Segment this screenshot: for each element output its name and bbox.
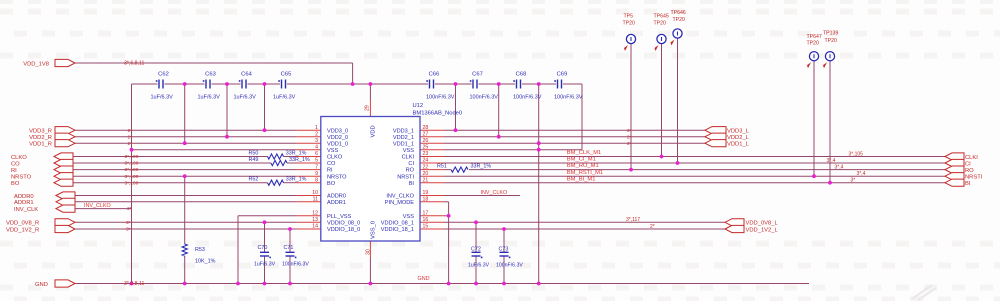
svg-text:33R_1%: 33R_1% <box>471 163 492 169</box>
svg-text:VSS: VSS <box>327 148 338 154</box>
svg-text:TP5: TP5 <box>624 14 634 20</box>
svg-text:BI: BI <box>965 181 971 187</box>
svg-text:3*,117: 3*,117 <box>626 217 640 223</box>
svg-text:3*,6,8,11: 3*,6,8,11 <box>124 281 144 287</box>
svg-text:U12: U12 <box>413 103 424 109</box>
svg-text:1uF/6.3V: 1uF/6.3V <box>198 95 221 101</box>
svg-text:1: 1 <box>315 125 318 131</box>
svg-text:3*: 3* <box>126 220 131 226</box>
svg-text:29: 29 <box>364 105 370 111</box>
svg-text:VDD_1V2_R: VDD_1V2_R <box>6 227 39 233</box>
svg-text:2*: 2* <box>627 128 632 134</box>
svg-text:C64: C64 <box>241 72 252 78</box>
svg-text:C69: C69 <box>557 72 568 78</box>
svg-text:C72: C72 <box>471 247 481 253</box>
svg-text:BM1366AB_Node0: BM1366AB_Node0 <box>413 111 463 117</box>
svg-text:VDDIO_08_1: VDDIO_08_1 <box>381 220 414 226</box>
svg-text:INV_CLKO: INV_CLKO <box>386 194 414 200</box>
svg-text:10: 10 <box>312 190 318 196</box>
svg-text:C68: C68 <box>516 72 527 78</box>
svg-text:PIN_MODE: PIN_MODE <box>385 200 414 206</box>
svg-text:NRSTI: NRSTI <box>397 174 414 180</box>
svg-text:14: 14 <box>312 224 318 230</box>
svg-text:ADDR0: ADDR0 <box>327 194 346 200</box>
svg-text:7: 7 <box>315 164 318 170</box>
svg-text:VDD_1V8: VDD_1V8 <box>23 61 49 67</box>
svg-text:VDD2_1: VDD2_1 <box>393 135 414 141</box>
svg-text:C66: C66 <box>429 72 440 78</box>
svg-text:C70: C70 <box>258 245 268 251</box>
svg-text:3*,100: 3*,100 <box>125 161 139 167</box>
svg-text:1uF/6.3V: 1uF/6.3V <box>151 95 174 101</box>
svg-text:100nF/6.3V: 100nF/6.3V <box>513 95 542 101</box>
svg-text:GND: GND <box>418 276 430 282</box>
svg-text:VSS_0: VSS_0 <box>371 221 377 239</box>
svg-text:4: 4 <box>315 144 318 150</box>
svg-text:BI: BI <box>409 181 415 187</box>
svg-text:3*,4: 3*,4 <box>835 164 844 170</box>
svg-text:27: 27 <box>423 131 429 137</box>
svg-text:13: 13 <box>312 217 318 223</box>
svg-text:3*,4: 3*,4 <box>827 158 836 164</box>
svg-text:VDD1_1: VDD1_1 <box>393 141 414 147</box>
svg-text:20: 20 <box>423 171 429 177</box>
svg-text:BM_RSTI_M1: BM_RSTI_M1 <box>567 170 603 176</box>
svg-text:3*,6,8,11: 3*,6,8,11 <box>124 61 144 67</box>
svg-text:C62: C62 <box>158 72 169 78</box>
svg-text:33R_1%: 33R_1% <box>286 151 307 157</box>
svg-text:VDD2_R: VDD2_R <box>29 135 52 141</box>
svg-text:VDDIO_08_0: VDDIO_08_0 <box>327 220 360 226</box>
svg-text:3*,105: 3*,105 <box>849 151 864 157</box>
svg-text:C65: C65 <box>281 72 292 78</box>
svg-text:16: 16 <box>423 217 429 223</box>
svg-text:NRSTO: NRSTO <box>327 174 347 180</box>
svg-text:BO: BO <box>11 181 20 187</box>
svg-text:NRSTI: NRSTI <box>965 175 983 181</box>
svg-text:TP20: TP20 <box>654 21 667 27</box>
svg-text:TP646: TP646 <box>671 10 686 16</box>
svg-text:18: 18 <box>423 197 429 203</box>
svg-text:VDD3_R: VDD3_R <box>29 129 52 135</box>
svg-text:TP20: TP20 <box>673 17 686 23</box>
svg-text:BM_RO_M1: BM_RO_M1 <box>567 163 599 169</box>
svg-text:1uF/6.3V: 1uF/6.3V <box>273 95 296 101</box>
svg-text:BM_CI_M1: BM_CI_M1 <box>567 157 596 163</box>
svg-text:CLKO: CLKO <box>11 155 27 161</box>
svg-text:1uF/6.3V: 1uF/6.3V <box>254 262 276 268</box>
svg-text:17: 17 <box>423 211 429 217</box>
svg-text:10K_1%: 10K_1% <box>195 259 216 265</box>
svg-text:VDD3_0: VDD3_0 <box>327 128 348 134</box>
svg-text:BO: BO <box>327 181 336 187</box>
svg-text:VDD2_0: VDD2_0 <box>327 135 348 141</box>
svg-text:TP20: TP20 <box>623 21 636 27</box>
svg-text:C71: C71 <box>284 245 294 251</box>
svg-text:1uF/6.3V: 1uF/6.3V <box>468 263 490 269</box>
svg-text:R51: R51 <box>437 163 447 169</box>
svg-text:BM_BI_M1: BM_BI_M1 <box>567 176 596 182</box>
svg-text:2*: 2* <box>650 224 655 230</box>
svg-text:3: 3 <box>315 138 318 144</box>
svg-text:INV_CLKO: INV_CLKO <box>481 190 508 196</box>
svg-text:VSS: VSS <box>403 214 414 220</box>
svg-text:TP647: TP647 <box>807 34 822 40</box>
svg-text:CLKI: CLKI <box>965 155 978 161</box>
svg-text:ADDR0: ADDR0 <box>14 194 34 200</box>
svg-text:CLKI: CLKI <box>402 155 415 161</box>
svg-text:VDD2_L: VDD2_L <box>727 135 750 141</box>
svg-text:3*: 3* <box>851 178 856 184</box>
svg-text:VDD1_L: VDD1_L <box>727 142 750 148</box>
svg-text:NRSTO: NRSTO <box>11 175 32 181</box>
svg-text:R49: R49 <box>249 157 259 163</box>
svg-text:11: 11 <box>313 197 318 203</box>
svg-text:33R_1%: 33R_1% <box>289 157 310 163</box>
svg-text:VDDIO_18_1: VDDIO_18_1 <box>381 227 414 233</box>
svg-text:100nF/6.3V: 100nF/6.3V <box>470 95 499 101</box>
svg-text:BM_CLK_M1: BM_CLK_M1 <box>567 150 601 156</box>
svg-text:RI: RI <box>11 168 17 174</box>
svg-text:VDDIO_18_0: VDDIO_18_0 <box>327 227 360 233</box>
svg-text:C63: C63 <box>205 72 216 78</box>
svg-text:2*: 2* <box>128 134 133 140</box>
svg-text:26: 26 <box>423 138 429 144</box>
svg-text:5: 5 <box>315 158 318 164</box>
svg-text:VDD3_L: VDD3_L <box>727 129 750 135</box>
svg-text:TP20: TP20 <box>825 38 838 44</box>
svg-text:1uF/6.3V: 1uF/6.3V <box>234 95 257 101</box>
svg-text:CI: CI <box>965 161 971 167</box>
svg-text:28: 28 <box>423 125 429 131</box>
svg-text:3*,100: 3*,100 <box>125 154 139 160</box>
svg-text:VDD: VDD <box>371 125 377 137</box>
svg-text:R52: R52 <box>249 177 259 183</box>
svg-text:22: 22 <box>423 164 429 170</box>
svg-text:R53: R53 <box>195 247 205 253</box>
svg-text:9: 9 <box>315 171 318 177</box>
svg-text:CO: CO <box>11 161 20 167</box>
svg-text:100nF/6.3V: 100nF/6.3V <box>554 95 583 101</box>
svg-text:CI: CI <box>408 161 414 167</box>
svg-text:23: 23 <box>423 151 429 157</box>
svg-text:3*,100: 3*,100 <box>125 180 139 186</box>
svg-text:2: 2 <box>315 131 318 137</box>
svg-text:3*: 3* <box>127 206 132 212</box>
svg-text:100nF/6.3V: 100nF/6.3V <box>426 95 455 101</box>
svg-text:24: 24 <box>423 158 429 164</box>
svg-text:2*: 2* <box>128 141 133 147</box>
svg-text:ADDR1: ADDR1 <box>14 200 34 206</box>
svg-text:VDD_1V2_L: VDD_1V2_L <box>746 227 779 233</box>
svg-text:15: 15 <box>423 224 429 230</box>
svg-text:CLKO: CLKO <box>327 155 343 161</box>
svg-text:21: 21 <box>423 177 429 183</box>
svg-text:25: 25 <box>423 144 429 150</box>
svg-text:6: 6 <box>315 151 318 157</box>
svg-text:3*: 3* <box>126 227 131 233</box>
svg-text:VDD3_1: VDD3_1 <box>393 128 414 134</box>
svg-text:19: 19 <box>423 190 429 196</box>
svg-text:100nF/6.3V: 100nF/6.3V <box>496 263 523 269</box>
svg-text:100nF/6.3V: 100nF/6.3V <box>282 262 309 268</box>
svg-text:VDD1_0: VDD1_0 <box>327 141 348 147</box>
svg-text:CO: CO <box>327 161 336 167</box>
svg-text:INV_CLK: INV_CLK <box>14 207 38 213</box>
svg-text:PLL_VSS: PLL_VSS <box>327 214 352 220</box>
svg-text:TP645: TP645 <box>654 14 669 20</box>
svg-text:RO: RO <box>406 168 415 174</box>
svg-text:TP139: TP139 <box>823 31 838 37</box>
svg-text:8: 8 <box>315 177 318 183</box>
svg-text:INV_CLKO: INV_CLKO <box>84 203 111 209</box>
svg-text:R50: R50 <box>249 151 259 157</box>
svg-text:VDD_0V8_L: VDD_0V8_L <box>746 221 779 227</box>
svg-text:TP20: TP20 <box>807 41 820 47</box>
svg-text:2*: 2* <box>128 128 133 134</box>
svg-text:C73: C73 <box>499 247 509 253</box>
svg-text:ADDR1: ADDR1 <box>327 200 346 206</box>
svg-text:GND: GND <box>35 282 48 288</box>
svg-text:30: 30 <box>366 249 372 255</box>
svg-text:33R_1%: 33R_1% <box>286 177 307 183</box>
svg-text:3*,100: 3*,100 <box>125 174 139 180</box>
svg-text:2*: 2* <box>627 141 632 147</box>
svg-text:RO: RO <box>965 168 974 174</box>
svg-text:C67: C67 <box>472 72 483 78</box>
svg-text:3*,4: 3*,4 <box>857 171 866 177</box>
svg-text:VSS: VSS <box>403 148 414 154</box>
svg-text:RI: RI <box>327 168 333 174</box>
svg-text:3*,100: 3*,100 <box>125 167 139 173</box>
svg-text:VDD1_R: VDD1_R <box>29 142 52 148</box>
svg-text:2*: 2* <box>627 134 632 140</box>
svg-text:VDD_0V8_R: VDD_0V8_R <box>6 221 39 227</box>
svg-text:12: 12 <box>312 211 318 217</box>
